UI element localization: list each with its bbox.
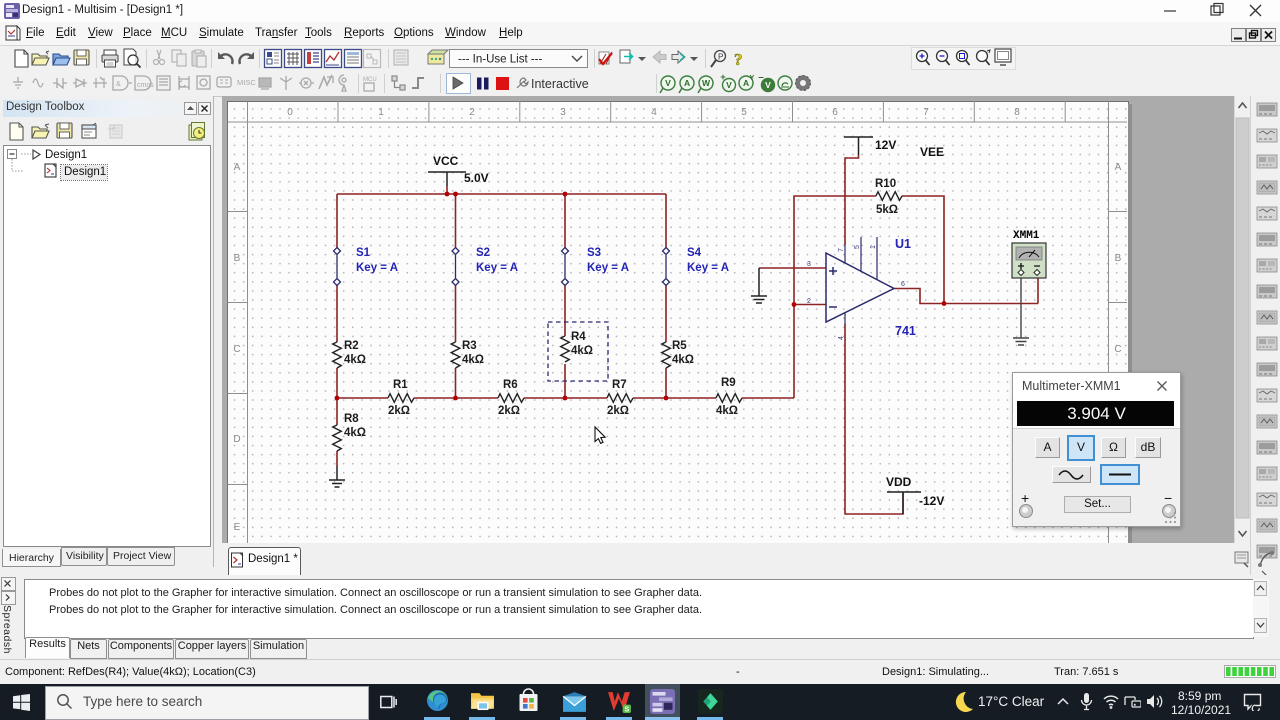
svg-text:MCU: MCU [363, 77, 377, 83]
svg-text:D: D [233, 434, 240, 445]
svg-text:V: V [765, 80, 771, 90]
svg-text:A: A [684, 78, 690, 88]
svg-text:MISC: MISC [237, 78, 256, 87]
svg-text:5: 5 [741, 107, 747, 118]
svg-text:V: V [726, 80, 732, 90]
svg-text:Y: Y [750, 75, 755, 82]
svg-text:B: B [234, 253, 241, 264]
svg-text:W: W [702, 78, 711, 88]
svg-text:Interactive: Interactive [531, 77, 589, 91]
svg-text:E: E [234, 522, 241, 533]
svg-text:7: 7 [923, 107, 929, 118]
svg-text:3: 3 [560, 107, 566, 118]
svg-text:cmos: cmos [137, 82, 154, 89]
svg-text:--- In-Use List ---: --- In-Use List --- [458, 54, 543, 66]
svg-text:8: 8 [1014, 107, 1020, 118]
svg-text:A: A [1115, 162, 1122, 173]
svg-text:&: & [116, 81, 121, 88]
svg-text:4: 4 [651, 107, 657, 118]
svg-text:C: C [1114, 344, 1121, 355]
svg-text:?: ? [734, 50, 743, 69]
svg-text:2: 2 [469, 107, 475, 118]
svg-text:0: 0 [287, 107, 293, 118]
svg-text:6: 6 [832, 107, 838, 118]
svg-text:S: S [624, 705, 629, 714]
svg-text:A: A [234, 162, 241, 173]
svg-text:C: C [233, 344, 240, 355]
svg-text:A: A [743, 78, 749, 88]
svg-text:B: B [1115, 253, 1122, 264]
svg-text:P: P [718, 53, 723, 62]
svg-text:1: 1 [378, 107, 384, 118]
svg-text:V: V [665, 78, 671, 88]
